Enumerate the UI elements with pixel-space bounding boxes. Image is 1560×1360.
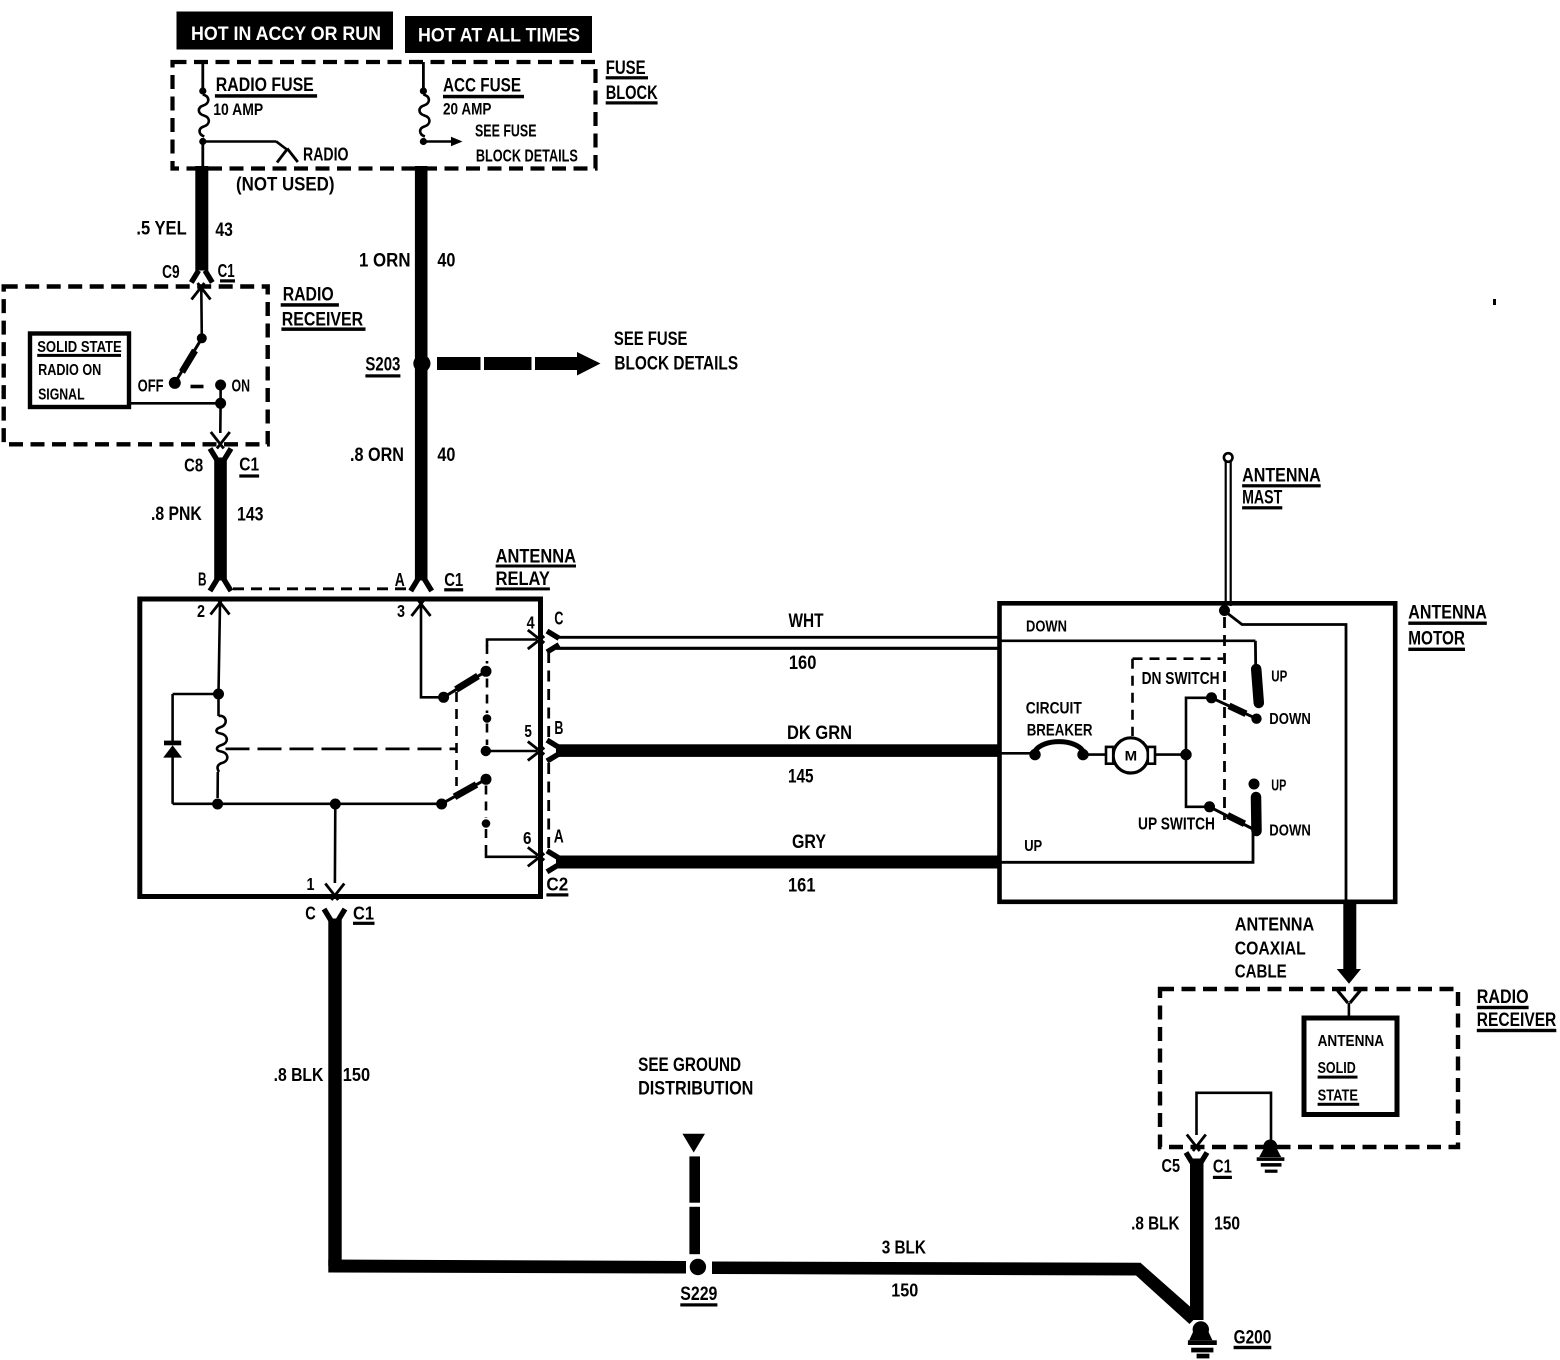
label 3 BLK <box>882 1238 926 1258</box>
svg-text:2: 2 <box>197 601 205 621</box>
box SOLID STATE RADIO ON SIGNAL <box>30 334 129 408</box>
wire radio fuse bottom stub <box>201 143 204 168</box>
connector RADIO (not used) fork <box>277 149 298 163</box>
label A (pin 6 conn) <box>554 826 564 846</box>
wire wht corner <box>1254 641 1257 666</box>
label A (relay pin) <box>395 570 405 590</box>
up switch blade <box>1210 807 1253 829</box>
box ANTENNA SOLID STATE <box>1304 1018 1397 1115</box>
label 40 (upper) <box>437 250 455 271</box>
svg-text:SOLID STATE: SOLID STATE <box>37 339 122 356</box>
junction dot switch top <box>197 333 207 343</box>
label .8 BLK (right) <box>1131 1214 1179 1234</box>
switch OFF contact dot <box>169 377 181 389</box>
label C1 (bottom) <box>353 904 375 925</box>
guide dashed upper2 <box>486 679 489 714</box>
svg-text:WHT: WHT <box>789 611 824 632</box>
svg-text:20 AMP: 20 AMP <box>443 100 491 119</box>
svg-text:G200: G200 <box>1234 1328 1272 1349</box>
relay lower switch blade <box>442 774 492 804</box>
svg-text:C8: C8 <box>184 456 203 476</box>
wire WHT inside motor <box>1001 639 1255 642</box>
svg-text:ANTENNA: ANTENNA <box>1242 466 1321 487</box>
arrow into receiver (from C9) <box>192 283 211 300</box>
svg-text:C1: C1 <box>444 570 463 590</box>
see fuse block details arrow (in fuse block) <box>423 137 462 147</box>
dn switch DOWN contact dot <box>1251 714 1261 724</box>
arrow to fuse block details (S203) <box>437 352 601 376</box>
connector A fork (relay C1) <box>411 579 432 591</box>
fuse block dashed enclosure <box>173 62 596 169</box>
circuit breaker element <box>1029 742 1088 761</box>
coax arrowhead <box>1337 969 1361 984</box>
relay upper contact pivot dot <box>438 692 449 703</box>
svg-text:GRY: GRY <box>792 832 826 853</box>
svg-text:C: C <box>554 609 563 629</box>
svg-text:C1: C1 <box>239 455 259 475</box>
svg-text:(NOT USED): (NOT USED) <box>236 175 335 196</box>
svg-text:RADIO: RADIO <box>283 285 334 306</box>
label C (pin 4 conn) <box>554 609 563 629</box>
power feed label HOT IN ACCY OR RUN <box>177 12 394 50</box>
svg-text:6: 6 <box>523 828 532 848</box>
label 150 (right) <box>1214 1214 1240 1234</box>
junction dot pin 1 <box>330 799 341 810</box>
wire pin 3 to pivot <box>421 606 441 698</box>
svg-text:MAST: MAST <box>1242 488 1282 509</box>
svg-text:RELAY: RELAY <box>496 569 551 590</box>
svg-text:UP SWITCH: UP SWITCH <box>1138 814 1215 834</box>
power feed label HOT AT ALL TIMES <box>405 16 592 53</box>
svg-text:43: 43 <box>215 220 233 241</box>
radio fuse label <box>213 75 317 119</box>
switch ON contact dot <box>215 380 226 391</box>
svg-text:UP: UP <box>1024 838 1042 855</box>
arrow pin 2 <box>211 598 230 615</box>
guide dashed lower <box>485 786 488 819</box>
label C (relay bottom pin) <box>305 904 316 924</box>
svg-text:C: C <box>305 904 316 924</box>
arrow out of receiver (to C5) <box>1187 1135 1206 1152</box>
label C1 (at C8) <box>239 455 259 478</box>
svg-text:FUSE: FUSE <box>606 58 646 79</box>
wire pin 6 <box>486 847 537 857</box>
contact bar DOWN (up switch) <box>1251 797 1262 831</box>
svg-text:ON: ON <box>232 376 251 396</box>
junction dot coil top <box>213 689 224 700</box>
contact bar UP (dn switch) <box>1256 669 1259 703</box>
wire radio tap (not used) <box>203 141 288 150</box>
svg-text:C1: C1 <box>218 261 235 281</box>
wire motor to junction <box>1156 753 1187 756</box>
label 145 <box>788 767 814 788</box>
label B (pin 5 conn) <box>554 718 563 738</box>
dashed connector line C2 <box>547 652 550 849</box>
label B (relay pin) <box>198 569 207 589</box>
wire .8 PNK 143 <box>214 458 227 581</box>
diode CR (coil suppression) <box>163 694 218 804</box>
label 4 (relay pin) <box>527 612 535 632</box>
svg-text:ANTENNA: ANTENNA <box>1408 602 1487 623</box>
svg-text:ANTENNA: ANTENNA <box>1318 1033 1385 1050</box>
label C5 <box>1162 1156 1181 1176</box>
switch blade (radio on/off) <box>175 338 202 383</box>
wire coax path in motor <box>1225 611 1347 901</box>
label ANTENNA RELAY <box>496 547 577 591</box>
wire pin 2 to coil <box>219 604 221 693</box>
svg-text:CABLE: CABLE <box>1235 962 1287 982</box>
fuse block label <box>606 58 658 105</box>
wire solid state to junction <box>130 402 220 405</box>
wire .8 BLK 150 (right) <box>1190 1159 1204 1321</box>
wire antenna coaxial cable <box>1343 901 1356 970</box>
fuse ACC FUSE 20A element <box>419 95 429 137</box>
relay coil <box>216 694 227 798</box>
svg-text:5: 5 <box>524 721 532 741</box>
svg-text:3 BLK: 3 BLK <box>882 1238 926 1258</box>
svg-text:BLOCK DETAILS: BLOCK DETAILS <box>476 145 578 165</box>
wire gry inside motor <box>1001 833 1253 862</box>
wire pin 4 <box>487 640 537 647</box>
svg-text:4: 4 <box>527 612 535 632</box>
wire .5 YEL 43 <box>195 166 208 271</box>
wire .8 BLK 150 (left) <box>328 919 341 1267</box>
svg-text:161: 161 <box>788 876 816 897</box>
label .8 PNK <box>151 504 202 525</box>
ground (receiver internal) <box>1257 1140 1285 1173</box>
guide dashed upper <box>486 645 489 664</box>
label UP (motor bottom) <box>1024 838 1042 855</box>
label C1 (relay) <box>444 570 463 591</box>
svg-text:ANTENNA: ANTENNA <box>1235 915 1315 935</box>
svg-text:MOTOR: MOTOR <box>1408 628 1465 649</box>
label ANTENNA MAST <box>1242 466 1321 510</box>
label 40 (lower) <box>437 445 455 466</box>
wire switch feed <box>200 289 203 338</box>
svg-text:S203: S203 <box>365 355 400 376</box>
svg-text:DISTRIBUTION: DISTRIBUTION <box>638 1079 753 1100</box>
svg-text:RADIO: RADIO <box>1477 987 1529 1008</box>
wire 3 BLK 150 ground run <box>328 1260 1199 1325</box>
svg-text:HOT AT ALL TIMES: HOT AT ALL TIMES <box>418 25 580 46</box>
label DK GRN <box>787 723 852 744</box>
label UP SWITCH <box>1138 814 1215 834</box>
wire relay bottom bus <box>173 802 442 805</box>
svg-text:150: 150 <box>1214 1214 1240 1234</box>
wire junction to up pivot <box>1186 755 1208 807</box>
svg-text:RADIO: RADIO <box>303 145 349 165</box>
svg-text:BREAKER: BREAKER <box>1027 720 1093 739</box>
junction dot mast base <box>1219 605 1230 616</box>
contact dot (lower travel) <box>482 819 491 828</box>
wire pin 5 <box>486 750 537 753</box>
svg-text:.8 BLK: .8 BLK <box>274 1065 324 1085</box>
svg-text:DOWN: DOWN <box>1269 711 1311 728</box>
label 1 ORN <box>359 250 411 271</box>
label S203 <box>365 355 400 378</box>
fuse RADIO FUSE 10A element <box>199 95 209 137</box>
svg-text:C2: C2 <box>546 875 568 895</box>
label RADIO RECEIVER (top) <box>281 285 366 331</box>
svg-text:SOLID: SOLID <box>1318 1060 1356 1077</box>
label WHT <box>789 611 824 632</box>
svg-text:.8 ORN: .8 ORN <box>350 445 404 466</box>
svg-text:40: 40 <box>437 445 455 466</box>
label ANTENNA COAXIAL CABLE <box>1235 915 1315 982</box>
svg-text:B: B <box>198 569 207 589</box>
svg-text:DOWN: DOWN <box>1269 823 1311 840</box>
label 150 (ground run) <box>891 1281 918 1301</box>
wire acc fuse top stub <box>422 62 425 89</box>
connector C5 fork <box>1186 1153 1207 1165</box>
svg-text:143: 143 <box>237 505 264 526</box>
svg-text:S229: S229 <box>680 1284 717 1305</box>
svg-text:150: 150 <box>343 1065 370 1085</box>
junction dot acc fuse top <box>420 87 427 94</box>
antenna mast <box>1224 453 1233 606</box>
svg-text:C1: C1 <box>353 904 374 924</box>
label 1 (relay pin) <box>307 874 315 894</box>
label OFF <box>138 376 164 396</box>
label 3 (relay pin) <box>397 601 405 621</box>
connector fork pin 4 <box>547 631 559 652</box>
svg-text:UP: UP <box>1271 669 1287 686</box>
svg-text:BLOCK DETAILS: BLOCK DETAILS <box>614 354 738 375</box>
svg-text:B: B <box>554 718 563 738</box>
svg-text:SEE FUSE: SEE FUSE <box>614 329 688 350</box>
arrow pin 4 <box>528 630 545 649</box>
svg-text:SEE GROUND: SEE GROUND <box>638 1055 741 1076</box>
svg-text:M: M <box>1125 747 1138 763</box>
wire breaker to motor <box>1088 753 1107 756</box>
connector fork pin 5 <box>547 740 559 761</box>
label DOWN (up switch) <box>1269 823 1311 840</box>
linkage dashed vertical <box>455 692 458 786</box>
svg-text:A: A <box>395 570 405 590</box>
relay upper switch blade <box>444 666 492 698</box>
label .8 ORN <box>350 445 404 466</box>
label ANTENNA MOTOR <box>1408 602 1487 651</box>
antenna relay box <box>140 599 541 897</box>
motor M <box>1106 738 1155 773</box>
label 6 (relay pin) <box>523 828 532 848</box>
connector C fork (bottom) <box>324 909 345 921</box>
connector coax socket fork <box>1338 991 1361 1017</box>
arrow pin 6 <box>528 847 545 866</box>
wire dkgrn to breaker <box>1001 752 1030 755</box>
see ground distribution arrow <box>682 1134 705 1255</box>
connector C8 fork <box>210 449 231 461</box>
connector B fork (relay C1) <box>210 579 231 591</box>
junction dot (solid state output) <box>215 398 226 409</box>
svg-text:.8 BLK: .8 BLK <box>1131 1214 1179 1234</box>
label 143 <box>237 505 264 526</box>
antenna motor box <box>1000 603 1396 902</box>
svg-text:145: 145 <box>788 767 814 788</box>
up switch pivot dot <box>1204 801 1215 812</box>
radio receiver dashed box (bottom) <box>1160 989 1458 1147</box>
svg-text:10 AMP: 10 AMP <box>213 100 263 119</box>
svg-text:CIRCUIT: CIRCUIT <box>1026 698 1082 717</box>
svg-text:DOWN: DOWN <box>1026 619 1067 636</box>
svg-text:SIGNAL: SIGNAL <box>38 386 85 403</box>
label .5 YEL <box>136 219 187 240</box>
radio receiver dashed box <box>4 287 268 445</box>
contact dot mid (pin4 chain) <box>0 0 1 1</box>
acc fuse label <box>443 75 524 118</box>
svg-text:C5: C5 <box>1162 1156 1181 1176</box>
svg-text:OFF: OFF <box>138 376 164 396</box>
label G200 <box>1234 1328 1272 1350</box>
wire junction down to C8 <box>219 403 222 433</box>
arrow pin 1 <box>325 884 344 901</box>
dn switch pivot dot <box>1206 692 1217 703</box>
connector fork pin 6 <box>547 851 559 872</box>
dashed connector line B-A <box>233 587 410 590</box>
arrow pin 3 <box>412 600 431 617</box>
label SEE GROUND DISTRIBUTION <box>638 1055 753 1100</box>
dn switch blade <box>1212 698 1257 719</box>
junction dot radio fuse top <box>199 87 206 94</box>
label DOWN (motor top) <box>1026 619 1067 636</box>
up switch UP contact dot <box>1249 779 1260 790</box>
relay lower contact pivot dot <box>436 799 447 810</box>
label 2 (relay pin) <box>197 601 205 621</box>
svg-text:ANTENNA: ANTENNA <box>496 547 577 568</box>
label GRY <box>792 832 826 853</box>
svg-text:40: 40 <box>437 250 455 271</box>
wire WHT 160 (outline) <box>556 637 1000 648</box>
stray mark <box>1493 299 1496 305</box>
svg-text:DN SWITCH: DN SWITCH <box>1142 668 1220 688</box>
splice S229 <box>690 1259 706 1275</box>
svg-text:RECEIVER: RECEIVER <box>1477 1010 1557 1031</box>
svg-text:SEE FUSE: SEE FUSE <box>475 120 537 140</box>
svg-text:.5 YEL: .5 YEL <box>136 219 187 240</box>
arrow out of receiver (to C8) <box>211 432 230 449</box>
svg-text:DK GRN: DK GRN <box>787 723 852 744</box>
mast linkage dashed <box>1223 617 1226 820</box>
svg-text:1: 1 <box>307 874 315 894</box>
label C1 (radio receiver conn) <box>218 261 235 282</box>
label CIRCUIT BREAKER <box>1026 698 1093 739</box>
contact dot (travel) <box>483 714 492 723</box>
wire 1 ORN 40 <box>415 166 428 581</box>
linkage dashed horizontal <box>226 748 457 751</box>
label .8 BLK (left) <box>274 1065 324 1085</box>
label ON <box>232 376 251 396</box>
label C8 <box>184 456 203 476</box>
splice S203 <box>413 355 430 372</box>
svg-text:C1: C1 <box>1213 1157 1232 1177</box>
label C9 <box>162 262 180 282</box>
label C1 (at C5) <box>1213 1157 1232 1180</box>
label RADIO (not used) <box>236 145 349 196</box>
svg-text:UP: UP <box>1271 778 1286 795</box>
svg-text:A: A <box>554 826 564 846</box>
label UP (dn switch) <box>1271 669 1287 686</box>
junction dot acc fuse bottom <box>420 138 427 145</box>
label RADIO RECEIVER (bottom) <box>1477 987 1557 1032</box>
motor junction dot <box>1180 749 1191 760</box>
svg-text:.8 PNK: .8 PNK <box>151 504 202 525</box>
junction dot coil bottom <box>212 799 223 810</box>
svg-text:RADIO ON: RADIO ON <box>38 362 101 379</box>
junction dot radio fuse bottom <box>199 138 206 145</box>
label 5 (relay pin) <box>524 721 532 741</box>
label DN SWITCH <box>1142 668 1220 688</box>
label SEE FUSE BLOCK DETAILS (fuse block) <box>475 120 578 165</box>
guide dashed lower2 <box>485 829 488 847</box>
svg-text:1 ORN: 1 ORN <box>359 250 411 271</box>
wire radio fuse top stub <box>201 62 204 89</box>
svg-text:160: 160 <box>789 653 817 674</box>
wire GRY 161 <box>556 856 1000 869</box>
label S229 <box>680 1284 717 1307</box>
wire ON to junction <box>219 385 222 403</box>
label SEE FUSE BLOCK DETAILS (S203) <box>614 329 738 375</box>
svg-text:ACC FUSE: ACC FUSE <box>443 75 521 96</box>
connector C9 fork <box>191 271 212 283</box>
ground G200 <box>1188 1321 1217 1358</box>
label UP (up switch) <box>1271 778 1286 795</box>
wire DK GRN 145 <box>556 744 1000 757</box>
wire junction to dn pivot <box>1186 698 1209 755</box>
label 161 <box>788 876 816 897</box>
svg-text:HOT IN ACCY OR RUN: HOT IN ACCY OR RUN <box>191 24 381 45</box>
label DOWN (dn switch) <box>1269 711 1311 728</box>
label 160 <box>789 653 817 674</box>
wire receiver internal ground loop <box>1197 1093 1272 1140</box>
guide dashed upper3 <box>486 724 489 746</box>
svg-text:STATE: STATE <box>1318 1087 1358 1104</box>
switch travel dash <box>191 385 204 389</box>
svg-text:C9: C9 <box>162 262 180 282</box>
wire pin 1 down <box>334 804 337 883</box>
arrow pin 5 <box>528 742 545 761</box>
svg-text:RADIO FUSE: RADIO FUSE <box>216 75 314 96</box>
label 150 (left) <box>343 1065 370 1085</box>
switch linkage dashed (dn) <box>1133 659 1224 736</box>
svg-text:3: 3 <box>397 601 405 621</box>
label C2 <box>546 875 568 897</box>
svg-text:150: 150 <box>891 1281 918 1301</box>
contact dot pin 5 <box>481 746 491 756</box>
label 43 <box>215 220 233 241</box>
svg-text:COAXIAL: COAXIAL <box>1235 939 1306 959</box>
svg-text:BLOCK: BLOCK <box>606 83 658 104</box>
